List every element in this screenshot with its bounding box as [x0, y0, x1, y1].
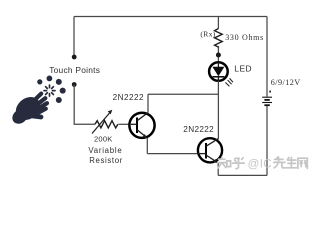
transistor Q1 2N2222	[129, 113, 154, 139]
resistor Rx 330 Ohms (vertical zigzag)	[215, 29, 223, 48]
watermark glyph 乎	[233, 158, 245, 169]
svg-text:2N2222: 2N2222	[183, 125, 214, 134]
thumb	[29, 116, 41, 118]
wire Q2 emitter down	[217, 162, 219, 175]
wire top rail	[74, 16, 267, 18]
fingers	[30, 94, 47, 115]
node touch point B	[72, 82, 77, 87]
wire touch point B down and to variable resistor	[74, 85, 95, 125]
resistor VR1 wiper arrow	[92, 113, 110, 134]
wire LED cathode down to collector rail and Q2 collector	[217, 81, 219, 140]
watermark glyph 知	[218, 157, 231, 168]
watermark glyph 网	[298, 158, 307, 168]
touch spark burst	[44, 85, 55, 96]
svg-text:@IC: @IC	[248, 157, 272, 170]
svg-text:200K: 200K	[94, 134, 113, 143]
battery BT1	[262, 91, 272, 106]
watermark 知乎 @IC先生网	[218, 157, 245, 169]
battery + mark	[269, 91, 271, 93]
svg-text:Touch Points: Touch Points	[49, 65, 100, 75]
wire collector rail to LED branch	[148, 93, 218, 95]
svg-text:Resistor: Resistor	[89, 156, 123, 165]
watermark glyph 生	[286, 157, 296, 167]
wire Q1 emitter down	[146, 138, 148, 154]
palm	[11, 92, 44, 124]
wire Q1 emitter to Q2 base	[147, 153, 197, 155]
wire Rx to LED	[217, 46, 219, 62]
touch sparkle dots	[37, 76, 65, 104]
wire VR to Q1 base	[118, 123, 129, 125]
hand icon (touching finger)	[9, 92, 47, 126]
LED D1	[209, 62, 233, 86]
wire touch-point feed (left vertical)	[73, 17, 75, 58]
wrist	[9, 106, 30, 126]
wire LED branch from top rail	[217, 17, 219, 29]
resistor VR1 200K variable (zigzag)	[95, 121, 118, 128]
node junction above LED	[216, 53, 221, 58]
node touch point A	[72, 55, 77, 60]
svg-text:6/9/12V: 6/9/12V	[271, 78, 301, 87]
LED light rays	[225, 78, 233, 86]
svg-text:LED: LED	[234, 64, 252, 74]
watermark glyph 先	[274, 157, 285, 168]
wire bottom rail	[218, 174, 267, 176]
svg-text:2N2222: 2N2222	[113, 93, 144, 102]
wire battery branch bottom	[266, 106, 268, 175]
wire Q1 collector up	[147, 94, 149, 113]
svg-text:(Rx): (Rx)	[200, 29, 215, 38]
transistor Q2 2N2222	[198, 138, 223, 163]
wire battery branch top	[266, 17, 268, 97]
svg-text:Variable: Variable	[88, 146, 122, 155]
svg-text:330 Ohms: 330 Ohms	[225, 33, 264, 42]
